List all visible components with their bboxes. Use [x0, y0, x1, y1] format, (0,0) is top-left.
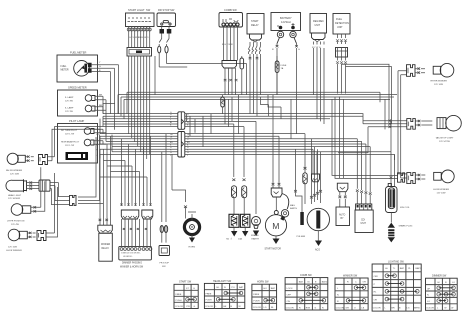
svg-text:BL: BL: [271, 307, 274, 309]
wire drops to bottom units: [187, 64, 395, 189]
table START SW: [174, 281, 198, 309]
svg-text:OFF: OFF: [374, 276, 379, 278]
svg-text:UP: UP: [427, 288, 431, 290]
svg-text:PO: PO: [232, 287, 235, 289]
svg-text:E: E: [194, 288, 196, 290]
svg-text:FUEL: FUEL: [336, 18, 343, 21]
connector headlight 3P: [39, 180, 59, 191]
svg-text:PUSH: PUSH: [176, 300, 182, 302]
connector fuel detection 3P: [336, 48, 348, 94]
svg-text:FUSE: FUSE: [281, 65, 287, 67]
wire fuel detection leads w/bullets: [336, 34, 347, 44]
svg-text:12V 4W: 12V 4W: [11, 224, 20, 226]
display odo LCD: [66, 152, 89, 160]
connector headlight inline 3P: [52, 135, 104, 206]
svg-text:G: G: [194, 306, 196, 308]
wire tail light feed: [303, 64, 407, 178]
svg-text:R/W: R/W: [306, 307, 311, 309]
svg-text:P: P: [374, 284, 376, 286]
connector near ACG 2P: [312, 174, 320, 182]
svg-text:O: O: [354, 307, 356, 309]
svg-text:DETECTION: DETECTION: [335, 22, 349, 25]
switch RR STOP SW: [157, 8, 176, 34]
svg-text:LH FR WINKER: LH FR WINKER: [6, 250, 22, 252]
motor START MOTOR: [265, 211, 287, 251]
connector tail light 3P: [407, 119, 433, 130]
bulb HEAD LIGHT 12V 30/30W: [6, 179, 27, 200]
lamp box PILOT LAMP: [58, 119, 98, 163]
svg-text:LH RR WINKER: LH RR WINKER: [433, 189, 449, 191]
svg-text:10A: 10A: [238, 238, 242, 241]
svg-text:BAT2: BAT2: [416, 267, 422, 270]
svg-text:COLOR: COLOR: [286, 307, 294, 309]
svg-text:12V 30/30W: 12V 30/30W: [8, 198, 21, 200]
svg-text:OR: OR: [363, 282, 367, 284]
svg-text:12V 10W: 12V 10W: [437, 193, 447, 195]
svg-text:R: R: [322, 307, 324, 309]
regulator RECTIFIER UNIT: [310, 14, 327, 42]
svg-text:IL LAMP: IL LAMP: [65, 107, 74, 110]
lamp winker pilot: [84, 128, 91, 135]
svg-text:START LIGHT: START LIGHT: [128, 8, 145, 12]
svg-text:BR/W: BR/W: [414, 307, 421, 309]
svg-text:LB: LB: [362, 307, 365, 309]
connector 6P inline: [178, 112, 185, 130]
svg-text:7A: 7A: [226, 238, 229, 241]
svg-text:L: L: [187, 155, 188, 157]
svg-text:HORN: HORN: [189, 247, 196, 249]
wire CDI feeds with bullets: [356, 139, 372, 204]
svg-text:RH RR WINKER: RH RR WINKER: [431, 81, 448, 83]
connector CDI 4P: [356, 204, 372, 210]
coil IGN COIL: [386, 152, 411, 213]
svg-text:LB GR B L: LB GR B L: [123, 256, 133, 258]
svg-text:COLOR: COLOR: [253, 307, 261, 309]
svg-text:HEADLIGHT SW: HEADLIGHT SW: [213, 280, 232, 283]
wire rh rr winker feed: [398, 71, 407, 178]
svg-text:COLOR: COLOR: [373, 307, 381, 309]
svg-text:ACG: ACG: [315, 249, 320, 252]
svg-text:SW: SW: [162, 266, 166, 268]
svg-text:R: R: [347, 282, 349, 284]
wire start-light-sw leads: [129, 26, 150, 48]
svg-text:N: N: [337, 295, 339, 297]
wire lh fr winker feed: [52, 173, 58, 237]
svg-text:W: W: [444, 308, 447, 310]
svg-text:WINKER & HORN SW: WINKER & HORN SW: [120, 267, 144, 269]
ring terminal FRAME EARTH: [251, 160, 261, 241]
wire bus upper: [118, 92, 397, 129]
svg-text:GR: GR: [96, 134, 99, 136]
svg-text:M: M: [272, 221, 279, 231]
svg-text:LG: LG: [407, 307, 410, 309]
svg-text:GR: GR: [346, 307, 350, 309]
svg-text:N: N: [224, 287, 226, 289]
svg-text:DIMMER SW: DIMMER SW: [432, 275, 447, 278]
unit AUTO BYSTARTER: [336, 207, 350, 226]
table LIGHTING SW: [372, 261, 421, 312]
svg-text:LIGHTING SW: LIGHTING SW: [388, 261, 405, 264]
svg-text:L: L: [437, 308, 439, 310]
unit FUEL DETECTION UNIT: [333, 14, 350, 35]
connector rear harness 2P: [398, 173, 405, 182]
pulser PULSER: [294, 149, 306, 238]
fuse main 1: [232, 160, 237, 214]
wire start relay leads (coiled): [249, 42, 261, 95]
wire harness rows upper (6): [103, 112, 363, 127]
wire harness drop from 8P connector: [129, 56, 150, 112]
svg-text:BAT: BAT: [271, 287, 276, 290]
svg-text:UNIT: UNIT: [361, 223, 367, 225]
svg-text:DIMMER PASSING: DIMMER PASSING: [122, 262, 142, 265]
lamp speedometer illumination 1: [85, 95, 92, 102]
connector rh rr winker 2P: [407, 65, 426, 77]
svg-text:UNIT: UNIT: [315, 24, 321, 27]
svg-text:BAT: BAT: [239, 286, 244, 289]
svg-text:12V3AH: 12V3AH: [281, 20, 291, 24]
svg-text:BR: BR: [99, 105, 102, 107]
svg-text:E: E: [315, 281, 317, 283]
svg-text:G: G: [315, 307, 317, 309]
wire headlight leads: [27, 181, 40, 189]
svg-text:BAT: BAT: [299, 280, 304, 283]
bulb TAIL/STOP LIGHT 12V 5/21W: [436, 115, 462, 143]
svg-text:HL: HL: [217, 287, 221, 289]
svg-text:WINKER: WINKER: [101, 244, 111, 246]
wire pilot lamp leads: [94, 129, 106, 144]
svg-text:START: START: [251, 20, 259, 23]
connector lh rr winker 2P: [398, 173, 425, 184]
svg-text:B: B: [231, 306, 233, 308]
relay WINKER RELAY: [98, 219, 113, 261]
table COMB SW (ignition): [285, 274, 328, 310]
svg-text:COLOR: COLOR: [175, 306, 183, 308]
connector lh fr winker 2P: [37, 231, 55, 241]
svg-text:HL: HL: [385, 268, 389, 270]
switch FR STOP SW: [159, 196, 170, 268]
svg-text:COLOR: COLOR: [336, 307, 344, 309]
svg-text:PUSH: PUSH: [253, 301, 259, 303]
svg-text:12V 1.7W: 12V 1.7W: [65, 134, 74, 136]
svg-text:FREE: FREE: [206, 293, 212, 295]
connector 8P (start light sw): [127, 48, 152, 57]
svg-text:START SW: START SW: [179, 281, 192, 284]
svg-text:PILOT LAMP: PILOT LAMP: [69, 119, 85, 123]
svg-text:SPARK PLUG: SPARK PLUG: [399, 225, 413, 228]
connector rh fr winker 2P: [39, 127, 104, 165]
svg-text:COMB SW: COMB SW: [224, 8, 237, 12]
connector 4P under comb sw: [222, 61, 237, 96]
svg-text:AUTO: AUTO: [339, 214, 346, 217]
switch block WINKER SW block: [142, 204, 153, 220]
svg-text:SW: SW: [146, 8, 151, 12]
resistor unit 10A: [238, 214, 250, 240]
fuse FUSE 7A (battery line): [275, 56, 287, 95]
svg-text:LO: LO: [452, 282, 455, 284]
table WINKER SW: [335, 274, 368, 310]
svg-text:LH FR POSITION: LH FR POSITION: [7, 221, 25, 223]
svg-text:N: N: [427, 295, 429, 297]
svg-text:12V 1.7W: 12V 1.7W: [65, 145, 74, 147]
fuse sub (left of comb): [221, 95, 225, 114]
wire vertical drops center: [100, 56, 247, 159]
svg-text:12V 10W: 12V 10W: [8, 247, 18, 249]
battery BATTERY 12V3AH: [271, 13, 301, 31]
svg-text:R: R: [299, 307, 301, 309]
wire drops to handlebar switches: [100, 134, 172, 226]
svg-text:HORN SW: HORN SW: [257, 281, 269, 284]
wire fuel meter leads: [92, 62, 119, 72]
svg-text:W: W: [239, 306, 242, 308]
svg-text:MAG: MAG: [290, 204, 295, 207]
table DIMMER SW: [426, 275, 458, 311]
svg-text:COMB SW: COMB SW: [300, 274, 312, 277]
svg-text:HIGH BEAM PILOT: HIGH BEAM PILOT: [61, 141, 80, 144]
battery terminals: [272, 31, 300, 95]
bulb RH RR WINKER 12V 10W: [431, 63, 454, 86]
lamp high beam pilot: [84, 139, 91, 146]
svg-text:Y: Y: [99, 62, 101, 64]
svg-text:EARTH: EARTH: [290, 207, 298, 210]
switch COMB SW (fuel unit): [219, 8, 243, 27]
svg-text:TAIL/STOP LIGHT: TAIL/STOP LIGHT: [436, 137, 455, 140]
svg-text:RH FR WINKER: RH FR WINKER: [6, 170, 22, 172]
svg-text:IGN COIL: IGN COIL: [400, 207, 410, 209]
svg-text:HO: HO: [264, 288, 268, 290]
lamp speedometer illumination 2: [85, 105, 92, 112]
svg-text:ON: ON: [287, 301, 291, 303]
switch START LIGHT SW: [126, 8, 155, 31]
svg-text:L: L: [337, 288, 339, 290]
horn HORN: [172, 190, 200, 249]
svg-text:L: L: [216, 306, 218, 308]
table HORN SW: [252, 281, 277, 310]
meter SPEED METER: [58, 86, 98, 117]
fuse main 2: [242, 163, 247, 214]
svg-text:B: B: [187, 124, 189, 126]
bulb LH FR WINKER 12V 10W: [6, 229, 36, 252]
svg-text:START MOTOR: START MOTOR: [265, 248, 282, 251]
svg-text:7A: 7A: [281, 67, 284, 70]
svg-text:HI: HI: [438, 282, 441, 284]
switch block DIMMER SW: [120, 204, 138, 220]
svg-text:FREE: FREE: [253, 294, 259, 296]
svg-text:BAT: BAT: [400, 267, 405, 270]
svg-text:GR: GR: [223, 306, 227, 308]
svg-text:G: G: [298, 49, 300, 51]
svg-text:PULSER: PULSER: [297, 236, 306, 238]
svg-text:⏚: ⏚: [230, 237, 232, 241]
svg-text:FUEL METER: FUEL METER: [70, 51, 86, 55]
svg-text:B: B: [399, 307, 401, 309]
relay START RELAY: [247, 14, 264, 43]
svg-text:12V 10W: 12V 10W: [10, 174, 20, 176]
svg-text:RELAY: RELAY: [102, 247, 110, 250]
svg-text:BR: BR: [392, 307, 395, 309]
svg-text:B G Y W R: B G Y W R: [222, 44, 233, 46]
svg-text:R: R: [272, 49, 274, 51]
svg-text:12V 3W: 12V 3W: [65, 101, 74, 103]
svg-text:UNIT: UNIT: [337, 26, 343, 29]
svg-text:COLOR: COLOR: [205, 306, 213, 308]
svg-text:PUSH: PUSH: [206, 300, 212, 302]
meter FUEL METER: [57, 51, 98, 83]
svg-text:Y/R: Y/R: [186, 306, 190, 308]
wire rr stop sw leads with bullet connectors: [158, 34, 169, 68]
svg-text:12V 3W: 12V 3W: [65, 111, 74, 113]
bulb LH RR WINKER 12V 10W: [433, 170, 454, 195]
svg-text:FR STOP: FR STOP: [160, 263, 170, 265]
svg-text:PL: PL: [408, 268, 411, 270]
svg-text:OFF: OFF: [287, 294, 292, 296]
svg-text:WINKER SW: WINKER SW: [343, 274, 358, 277]
spark plug SPARK PLUG: [388, 213, 413, 243]
svg-text:IG: IG: [307, 281, 310, 283]
pin labels 6P/9P: [96, 114, 190, 157]
svg-text:FUEL: FUEL: [61, 66, 68, 68]
wire harness rows lower (9): [100, 134, 395, 155]
wire lh fr position feed: [38, 167, 45, 211]
alternator ACG: [307, 160, 329, 252]
connector AUTO BYSTARTER 2P: [337, 97, 348, 208]
svg-text:RELAY: RELAY: [251, 24, 259, 27]
resistor unit 7A: [226, 214, 239, 240]
svg-text:ST: ST: [186, 288, 189, 290]
svg-text:BR: BR: [99, 94, 102, 96]
svg-text:HEAD LIGHT: HEAD LIGHT: [8, 194, 22, 197]
svg-text:G BR LB O B GR W L: G BR LB O B GR W L: [121, 253, 141, 255]
svg-text:L: L: [385, 307, 387, 309]
unit CDI UNIT: [355, 210, 373, 233]
svg-text:BAT2: BAT2: [322, 280, 328, 283]
svg-text:OR: OR: [374, 299, 378, 301]
svg-text:NO TURN PILOT: NO TURN PILOT: [61, 130, 78, 132]
svg-text:CDI: CDI: [361, 220, 365, 222]
svg-text:TL: TL: [393, 268, 396, 270]
svg-text:L: L: [170, 155, 171, 157]
svg-text:IL LAMP: IL LAMP: [65, 96, 74, 99]
svg-text:RR STOP SW: RR STOP SW: [158, 8, 175, 12]
svg-text:W: W: [451, 308, 454, 310]
svg-text:C: C: [355, 282, 357, 284]
svg-text:COLOR: COLOR: [426, 308, 434, 310]
wire comb sw leads: [222, 26, 238, 81]
bulb LH FR POSITION 12V 4W: [7, 204, 41, 226]
svg-text:12V 5/21W: 12V 5/21W: [439, 141, 451, 143]
table HEADLIGHT SW: [204, 280, 244, 309]
svg-text:HL: HL: [374, 292, 378, 294]
svg-text:FRAME: FRAME: [251, 234, 259, 237]
bulb RH FR WINKER 12V 10W: [6, 153, 34, 175]
svg-text:LO: LO: [427, 301, 430, 303]
svg-text:FREE: FREE: [176, 294, 182, 296]
svg-text:SPEED METER: SPEED METER: [68, 86, 87, 90]
svg-text:G: G: [99, 66, 101, 68]
svg-text:BY: BY: [341, 218, 345, 220]
svg-text:EARTH: EARTH: [252, 238, 260, 241]
svg-text:REG/REC: REG/REC: [313, 20, 324, 23]
fuse near ACG: [303, 134, 307, 204]
svg-text:B: B: [170, 124, 172, 126]
wire speed meter leads: [95, 94, 106, 110]
relay magnetic switch: [271, 155, 297, 221]
svg-text:BATTERY: BATTERY: [280, 16, 292, 20]
svg-text:METER: METER: [61, 70, 69, 72]
svg-text:12V 10W: 12V 10W: [434, 84, 444, 86]
fuse spare (near comb sw): [240, 56, 244, 95]
svg-text:LOCK: LOCK: [287, 288, 293, 290]
svg-text:R: R: [337, 301, 339, 303]
connector handlebar sw 9P: [119, 219, 152, 269]
svg-text:N: N: [445, 282, 447, 284]
svg-text:G Y L W BR B LB O: G Y L W BR B LB O: [129, 37, 149, 39]
connector 9P inline: [178, 132, 185, 158]
svg-text:LG: LG: [264, 307, 267, 309]
wire rectifier leads: [312, 42, 324, 96]
